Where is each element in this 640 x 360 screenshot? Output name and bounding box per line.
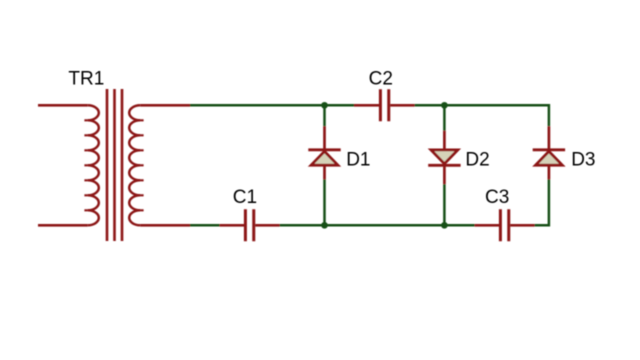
diode D1 top pin	[323, 126, 326, 150]
wire D1 bottom drop	[323, 179, 326, 225]
junction node top-left at D1	[321, 102, 328, 109]
svg-text:D2: D2	[465, 149, 489, 170]
diode D1 cathode bar	[308, 148, 340, 151]
svg-text:C3: C3	[485, 187, 509, 208]
transformer TR1 secondary winding cusp ticks	[140, 120, 144, 210]
transformer TR1 secondary top pin	[140, 104, 190, 107]
wire D2 bottom drop	[443, 184, 446, 225]
wire D3 bottom drop to bottom-right corner to C3 right pin	[535, 179, 549, 225]
transformer TR1 primary winding cusp ticks	[84, 120, 88, 210]
junction node top-right at D2	[441, 102, 448, 109]
wire bottom from TR1 to C1 left pin	[190, 224, 220, 227]
wire bottom from C1 right pin to D2 bottom node	[280, 224, 445, 227]
capacitor C3 right pin	[510, 224, 534, 227]
capacitor C1 plates	[245, 209, 253, 241]
capacitor C3 left pin	[475, 224, 499, 227]
diode D3 top pin	[548, 126, 551, 150]
diode D3 cathode bar	[533, 148, 565, 151]
diode D3 bottom pin	[548, 165, 551, 179]
svg-text:TR1: TR1	[68, 68, 104, 89]
diode D2 top pin	[443, 131, 446, 150]
svg-text:C1: C1	[233, 187, 257, 208]
wire D1 top drop	[323, 105, 326, 126]
transformer TR1 secondary winding	[129, 105, 140, 225]
wire D2 top drop	[443, 105, 446, 130]
wire top from C2 right pin to top-right corner down to D3 anode	[415, 105, 549, 126]
capacitor C1 left pin	[220, 224, 244, 227]
junction node bottom-right at D2	[441, 222, 448, 229]
transformer TR1 core	[107, 89, 122, 241]
transformer TR1 primary bottom lead	[38, 224, 88, 227]
transformer TR1 secondary bottom pin	[140, 224, 190, 227]
wire top from TR1 to C2 left pin	[190, 104, 354, 107]
wire bottom from D2 bottom node to C3 left pin	[444, 224, 474, 227]
diode D2 cathode bar	[428, 164, 460, 167]
svg-text:D3: D3	[571, 149, 595, 170]
svg-text:C2: C2	[369, 68, 393, 89]
svg-text:D1: D1	[346, 149, 370, 170]
transformer TR1 primary winding	[88, 105, 99, 225]
capacitor C2 plates	[380, 89, 388, 121]
transformer TR1 primary top lead	[38, 104, 88, 107]
capacitor C1 right pin	[255, 224, 279, 227]
diode D2 bottom pin	[443, 165, 446, 184]
diode D1 triangle	[311, 151, 338, 165]
diode D1 bottom pin	[323, 165, 326, 179]
diode D3 triangle	[536, 151, 563, 165]
capacitor C2 right pin	[390, 104, 414, 107]
capacitor C3 plates	[500, 209, 508, 241]
junction node bottom-left at D1	[321, 222, 328, 229]
diode D2 triangle	[431, 150, 458, 164]
capacitor C2 left pin	[354, 104, 379, 107]
